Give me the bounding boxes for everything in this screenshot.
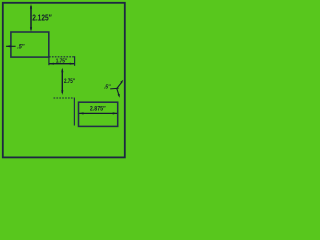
dimension D2 arrowhead [6,45,11,47]
dimension D2 .5" leader arrow (left rectangle) [6,45,16,47]
dimension D6 upper arrowhead [120,80,123,84]
rectangle R2 (bottom-right part outline) [79,102,118,126]
dimension D3 right arrowhead [70,63,75,65]
dimension D6 lower arrowhead [118,94,120,98]
dimension D6 upper arrow line [116,82,122,89]
dimension D5 right arrowhead [113,112,118,114]
vertical line W3 (left of rectangle R2) [73,98,75,126]
svg-text:2.75″: 2.75″ [64,78,75,85]
dashed center line E2 [54,97,75,99]
dimension D4 top arrowhead [61,68,63,73]
dimension D4 bottom arrowhead [61,90,63,95]
dimension D4 2.75" vertical line [61,70,63,93]
svg-text:.5″: .5″ [17,44,25,51]
dimension D1 bottom arrowhead [30,27,32,32]
svg-text:2.875″: 2.875″ [90,106,106,113]
dimension D3 left arrowhead [49,63,54,65]
witness line W2 (left, extends rectangle R1 right edge) [48,57,50,65]
dimension D5 2.875" line [79,112,117,114]
dimension D6 lower arrow line [117,88,119,95]
dimension D5 left arrowhead [79,112,84,114]
dashed extension line E1 [49,56,75,58]
dimension D1 2.125" vertical line [30,6,32,30]
svg-text:.5″: .5″ [104,84,111,90]
svg-text:1.75″: 1.75″ [56,59,68,65]
dimension D1 top arrowhead [30,4,32,9]
svg-text:2.125″: 2.125″ [32,13,52,23]
rectangle R1 (top-left part outline) [11,32,49,57]
witness line W1 (right end of 1.75 dim) [74,56,76,66]
dimension D3 1.75" line [49,63,74,65]
dimension D6 leader line [110,87,118,90]
page border frame [3,3,125,158]
green background [0,0,127,160]
